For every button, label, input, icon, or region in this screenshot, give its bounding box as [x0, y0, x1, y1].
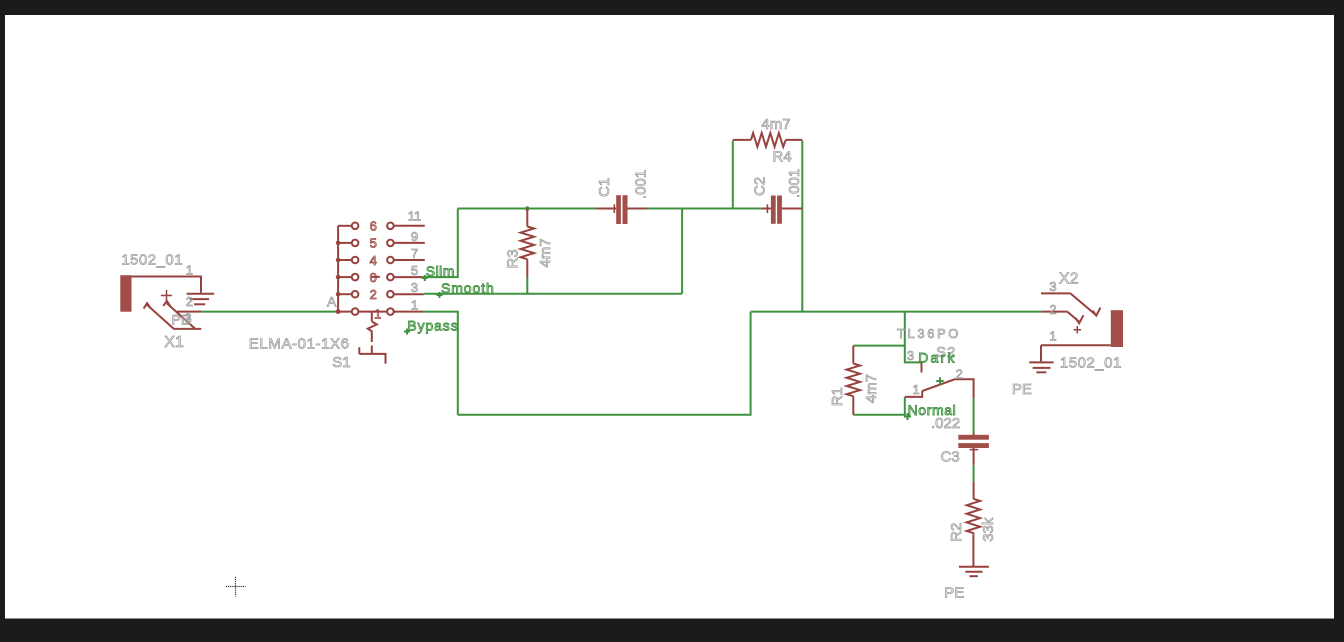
svg-text:Smooth: Smooth [441, 280, 495, 296]
svg-text:2: 2 [186, 294, 193, 309]
svg-text:Bypass: Bypass [407, 317, 458, 333]
svg-text:4: 4 [370, 253, 377, 268]
svg-text:S1: S1 [332, 354, 350, 371]
svg-text:Dark: Dark [918, 350, 956, 366]
svg-text:R2: R2 [948, 523, 965, 542]
svg-text:3: 3 [1049, 279, 1056, 294]
svg-text:4m7: 4m7 [863, 374, 880, 403]
svg-text:PE: PE [944, 585, 964, 602]
svg-text:1: 1 [411, 297, 418, 312]
svg-text:4m7: 4m7 [537, 238, 554, 267]
svg-text:.001: .001 [632, 170, 649, 199]
svg-text:3: 3 [907, 348, 914, 363]
svg-text:3: 3 [411, 280, 418, 295]
svg-text:5: 5 [370, 236, 377, 251]
svg-text:.022: .022 [931, 415, 960, 432]
svg-text:R3: R3 [504, 249, 521, 268]
svg-text:1502_01: 1502_01 [121, 251, 183, 268]
svg-text:1: 1 [186, 262, 193, 277]
svg-text:5: 5 [411, 263, 418, 278]
svg-text:6: 6 [370, 219, 377, 234]
svg-text:1502_01: 1502_01 [1060, 355, 1122, 372]
svg-text:C1: C1 [596, 178, 613, 197]
svg-text:Slim: Slim [426, 263, 455, 279]
svg-text:R4: R4 [773, 149, 792, 166]
svg-text:X1: X1 [164, 334, 184, 351]
svg-text:33k: 33k [980, 517, 997, 542]
svg-text:R1: R1 [829, 387, 846, 406]
svg-text:7: 7 [411, 246, 418, 261]
svg-text:4m7: 4m7 [761, 116, 790, 133]
svg-text:1: 1 [374, 306, 381, 321]
svg-text:2: 2 [1049, 302, 1056, 317]
svg-text:11: 11 [408, 209, 422, 224]
svg-text:C3: C3 [941, 449, 960, 466]
svg-text:1: 1 [913, 382, 920, 397]
svg-text:1: 1 [1049, 329, 1056, 344]
svg-text:A: A [327, 294, 337, 310]
svg-text:9: 9 [411, 229, 418, 244]
svg-text:X2: X2 [1059, 271, 1079, 288]
svg-text:2: 2 [956, 367, 963, 382]
svg-text:C2: C2 [752, 177, 769, 196]
svg-text:0: 0 [370, 270, 377, 285]
svg-text:TL36PO: TL36PO [897, 326, 961, 341]
svg-text:PE: PE [1012, 381, 1032, 398]
svg-text:.001: .001 [786, 169, 803, 198]
svg-text:2: 2 [370, 287, 377, 302]
svg-text:ELMA-01-1X6: ELMA-01-1X6 [249, 336, 350, 353]
svg-text:3: 3 [185, 311, 192, 326]
